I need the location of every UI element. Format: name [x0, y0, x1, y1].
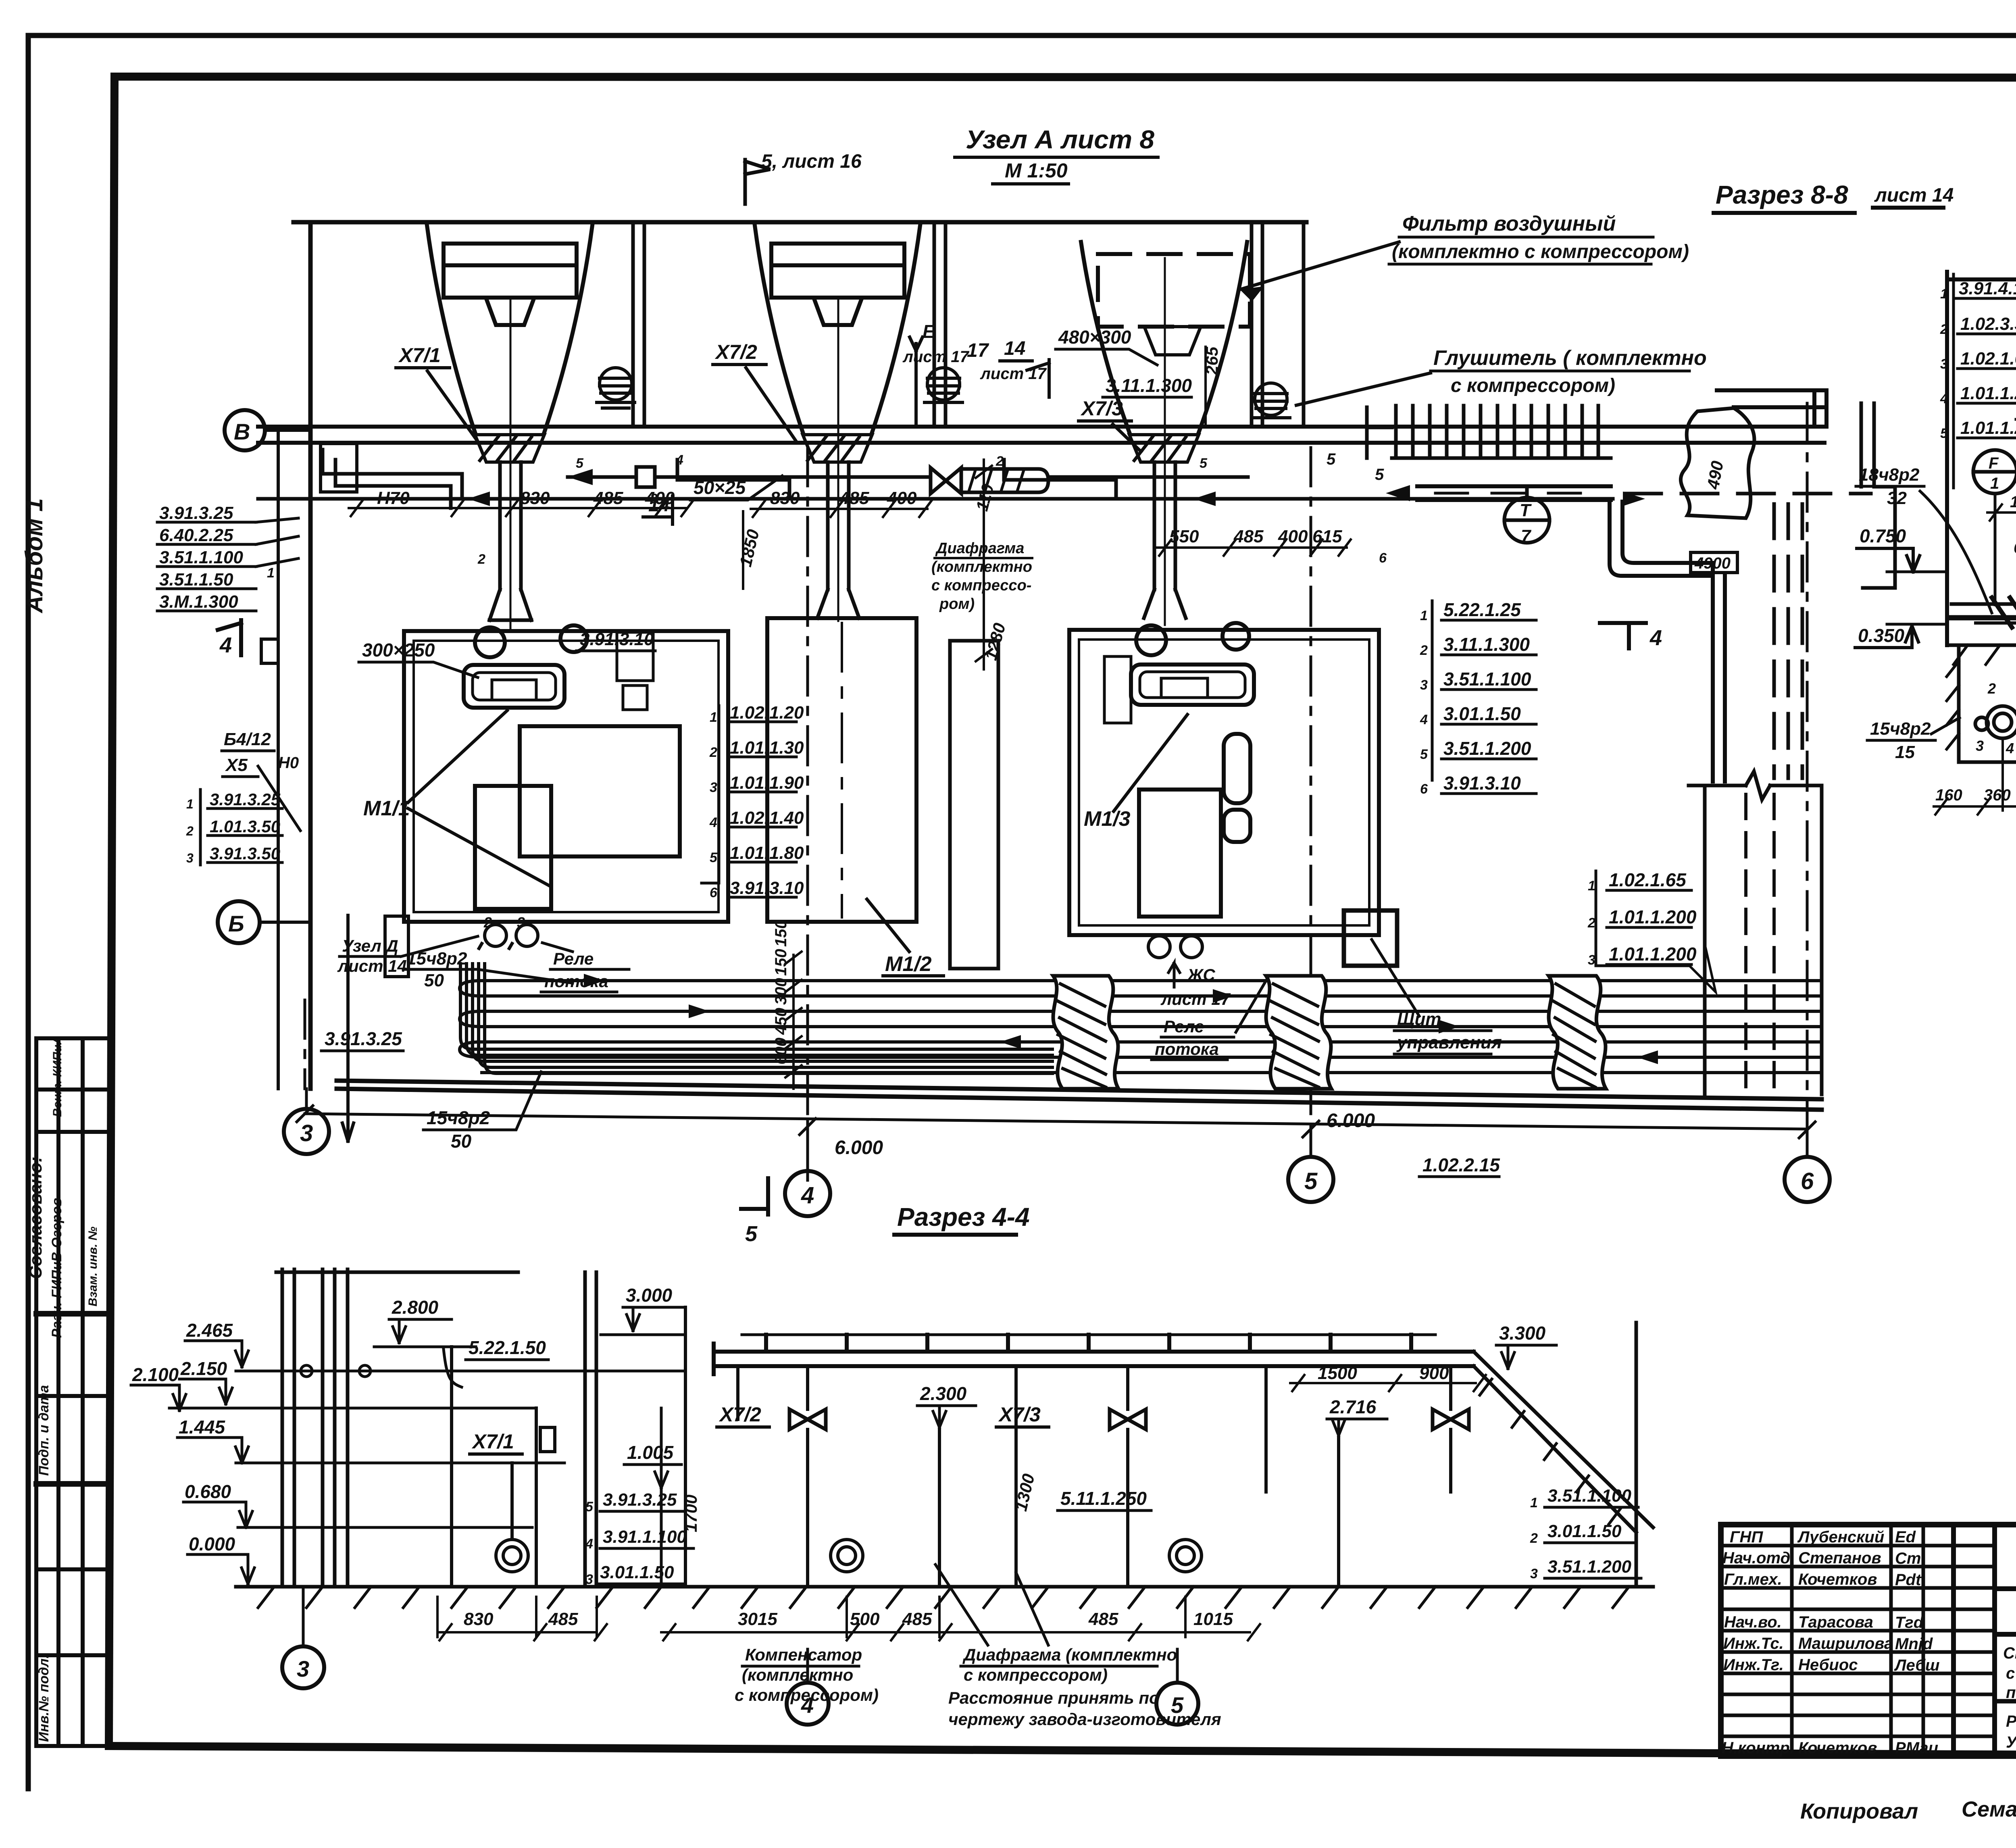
svg-text:4: 4: [675, 452, 683, 468]
Щит управления label: [1372, 940, 1502, 1054]
svg-text:Ст: Ст: [1895, 1550, 1921, 1567]
svg-text:3015: 3015: [738, 1609, 777, 1629]
compressor unit 1 air intake cap: [444, 244, 577, 325]
dim row under ground right: [661, 1597, 1260, 1640]
svg-text:5: 5: [1304, 1168, 1318, 1194]
Узел Д лист 14 label: [337, 936, 478, 975]
svg-text:Глушитель ( комплектно: Глушитель ( комплектно: [1433, 346, 1707, 370]
svg-text:5: 5: [1327, 450, 1336, 468]
svg-text:2: 2: [996, 454, 1004, 469]
svg-text:2.300: 2.300: [920, 1383, 967, 1404]
svg-text:6: 6: [1379, 550, 1387, 566]
elbow duct top right: [1610, 502, 1725, 781]
long pipe: [258, 492, 1871, 506]
svg-text:Х7/3: Х7/3: [998, 1403, 1041, 1426]
foundation block columns: [1053, 976, 1606, 1089]
svg-text:Е: Е: [923, 321, 935, 342]
svg-text:4: 4: [801, 1182, 814, 1208]
4900 box: [1691, 552, 1737, 573]
svg-text:лист 17: лист 17: [902, 348, 969, 366]
dim row + line: [1987, 504, 2016, 521]
svg-text:РМаи: РМаи: [1895, 1739, 1938, 1757]
svg-text:5: 5: [1375, 466, 1384, 483]
svg-text:830: 830: [464, 1609, 494, 1629]
svg-text:2.100: 2.100: [132, 1364, 179, 1385]
svg-text:1.01.1.90: 1.01.1.90: [730, 773, 804, 793]
flag 5 лист 16: [745, 160, 770, 204]
grid circles 3 4 5 6: [284, 1109, 1830, 1216]
svg-text:Узел А лист 8: Узел А лист 8: [966, 125, 1154, 154]
svg-text:830: 830: [520, 488, 550, 508]
svg-text:Т: Т: [1520, 500, 1532, 520]
flow meter circle: [496, 1463, 528, 1572]
svg-text:300: 300: [772, 978, 790, 1005]
svg-text:(комплектно: (комплектно: [931, 558, 1032, 575]
u3 downpipe: [1144, 258, 1186, 625]
svg-text:1700: 1700: [681, 1495, 700, 1532]
svg-text:485: 485: [1233, 527, 1264, 546]
svg-text:Небиос: Небиос: [1798, 1656, 1858, 1674]
18ч8р2 32 label top-left: [1859, 465, 1920, 508]
elevation 0.750: [1857, 525, 1947, 572]
right callouts lower: [1547, 1486, 1631, 1577]
svg-text:Диафрагма (комплектно: Диафрагма (комплектно: [962, 1645, 1177, 1664]
dim row under ground left: [437, 1597, 607, 1640]
svg-text:Б: Б: [228, 911, 244, 936]
svg-text:1.02.1.65: 1.02.1.65: [1609, 869, 1687, 890]
grid axes vertical: [305, 403, 1807, 1180]
svg-text:0.680: 0.680: [185, 1481, 231, 1502]
svg-text:2: 2: [1987, 680, 1996, 697]
svg-text:Нач.во.: Нач.во.: [1724, 1613, 1782, 1631]
svg-text:1280: 1280: [981, 621, 1009, 662]
svg-text:1: 1: [1420, 608, 1428, 623]
svg-text:3.91.4.150: 3.91.4.150: [1959, 279, 2016, 298]
section callout left (1..5): [1954, 274, 2016, 488]
ground line + hatch: [1947, 645, 2016, 665]
svg-text:Станция воздушно-компрессионна: Станция воздушно-компрессионная: [2003, 1644, 2016, 1662]
svg-text:2: 2: [1420, 643, 1428, 658]
stairs: [1367, 406, 1611, 458]
svg-text:3.91.3.25: 3.91.3.25: [210, 790, 281, 809]
svg-text:Разрез 8-8: Разрез 8-8: [1716, 180, 1848, 209]
svg-text:Инж.Тг.: Инж.Тг.: [1723, 1656, 1784, 1674]
left callout stack B: [200, 790, 282, 865]
svg-text:5: 5: [1940, 426, 1948, 441]
svg-text:1: 1: [1990, 475, 1999, 492]
svg-text:2.800: 2.800: [392, 1297, 439, 1318]
u3 silencer: [1252, 383, 1290, 418]
svg-text:900: 900: [1419, 1363, 1449, 1383]
u2 silencer: [925, 368, 962, 402]
M1/1 bottom valves: [479, 922, 538, 948]
wall top: [294, 220, 1306, 225]
svg-text:3.01.1.50: 3.01.1.50: [1547, 1521, 1622, 1541]
svg-text:М1/2: М1/2: [885, 952, 932, 976]
column between M1/2 M1/3: [950, 641, 998, 969]
svg-text:М 1:50: М 1:50: [1005, 159, 1068, 182]
svg-text:Диафрагма: Диафрагма: [935, 540, 1024, 557]
svg-text:680: 680: [2014, 539, 2016, 557]
Б4/12 Х5 labels: [222, 729, 300, 831]
svg-text:1: 1: [1940, 286, 1948, 302]
svg-text:18ч8р2: 18ч8р2: [1859, 465, 1920, 485]
svg-text:500: 500: [850, 1609, 880, 1629]
svg-text:3.51.1.100: 3.51.1.100: [159, 548, 243, 567]
svg-text:3: 3: [650, 491, 658, 506]
svg-text:чертежу завода-изготовителя: чертежу завода-изготовителя: [948, 1710, 1221, 1729]
svg-text:4: 4: [1649, 626, 1662, 650]
svg-text:490: 490: [1703, 459, 1727, 491]
svg-text:6: 6: [1420, 781, 1428, 797]
svg-text:830: 830: [770, 488, 800, 508]
svg-text:Б4/12: Б4/12: [224, 729, 271, 749]
svg-text:1.01.1.30: 1.01.1.30: [730, 738, 804, 758]
svg-text:5: 5: [576, 456, 584, 471]
svg-text:3.91.3.10: 3.91.3.10: [1443, 773, 1521, 794]
callout stack lower right (1..3): [1596, 871, 1716, 992]
band arrows: [584, 974, 1658, 1064]
svg-text:3.91.3.25: 3.91.3.25: [325, 1028, 402, 1049]
svg-text:1850: 1850: [736, 527, 763, 569]
callout stack upper right (1..6): [1432, 601, 1536, 794]
svg-text:Семайкина: Семайкина: [1962, 1797, 2016, 1821]
valve symbol: [540, 1427, 555, 1452]
svg-text:5: 5: [745, 1222, 758, 1246]
svg-text:1280: 1280: [2010, 493, 2016, 511]
svg-text:5: 5: [1200, 456, 1208, 471]
svg-text:3.91.1.100: 3.91.1.100: [603, 1527, 687, 1547]
bowtie valve on axis 4: [789, 1409, 826, 1429]
реле потока label u3: [1152, 981, 1266, 1060]
doc number cell: [1995, 1586, 2016, 1591]
M1/3 bottom valves: [1148, 936, 1202, 958]
vertical dim column: [785, 952, 802, 1089]
svg-text:4: 4: [1940, 391, 1948, 406]
svg-text:3: 3: [186, 851, 194, 865]
svg-text:3.11.1.300: 3.11.1.300: [1443, 634, 1530, 655]
u1 downpipe: [489, 300, 531, 629]
svg-text:6.40.2.25: 6.40.2.25: [159, 525, 233, 545]
svg-text:3: 3: [297, 1656, 309, 1681]
svg-text:2: 2: [1530, 1531, 1538, 1546]
svg-text:160: 160: [1935, 786, 1962, 804]
bowtie valve u2 top: [931, 468, 961, 494]
svg-text:6.000: 6.000: [1327, 1110, 1375, 1131]
section walls: [1947, 226, 2016, 719]
svg-text:5.11.1.250: 5.11.1.250: [1060, 1488, 1147, 1509]
svg-text:2.465: 2.465: [186, 1320, 233, 1341]
svg-text:3: 3: [1976, 738, 1984, 754]
svg-text:Кочетков: Кочетков: [1798, 1739, 1877, 1757]
foundation block hatch: [1057, 984, 1595, 1087]
15ч8р2 15 label: [1870, 719, 1931, 762]
wall left: [278, 222, 408, 1141]
control panel box: [1344, 910, 1397, 966]
svg-text:Н0: Н0: [278, 754, 299, 772]
svg-text:15ч8р2: 15ч8р2: [427, 1107, 490, 1128]
svg-text:1015: 1015: [1193, 1609, 1233, 1629]
svg-text:0.750: 0.750: [1860, 525, 1906, 546]
axis circles 4 5 lower: [787, 1649, 1198, 1725]
svg-text:1.01.1.200: 1.01.1.200: [1960, 418, 2016, 438]
svg-text:Гл.мех.: Гл.мех.: [1724, 1571, 1782, 1588]
left outside callout stack: [157, 518, 298, 611]
svg-text:3.91.3.25: 3.91.3.25: [159, 503, 233, 523]
svg-text:485: 485: [839, 488, 869, 508]
svg-text:400: 400: [887, 488, 917, 508]
svg-text:1.02.1.40: 1.02.1.40: [730, 808, 804, 828]
svg-text:3: 3: [710, 780, 717, 795]
svg-text:150: 150: [772, 949, 790, 976]
svg-text:5: 5: [710, 850, 718, 865]
grid axis circle Б: [218, 901, 310, 943]
svg-text:400: 400: [1278, 527, 1308, 546]
M1/3 label + leader: [1084, 715, 1187, 831]
signature rows: [1721, 1544, 1995, 1548]
svg-text:600: 600: [772, 1038, 790, 1065]
svg-text:Х7/1: Х7/1: [471, 1430, 514, 1453]
bowtie valve right: [1433, 1409, 1469, 1429]
1500 900 dims: [1290, 1375, 1486, 1391]
svg-text:Расстояние принять по: Расстояние принять по: [948, 1688, 1160, 1707]
svg-text:0.350: 0.350: [1858, 625, 1905, 646]
svg-text:1.02.2.15: 1.02.2.15: [1422, 1154, 1500, 1175]
axis circle 3 lower: [282, 1587, 324, 1688]
svg-text:5, лист 16: 5, лист 16: [761, 151, 862, 172]
svg-text:150: 150: [772, 920, 790, 947]
svg-text:Разрез 4-4: Разрез 4-4: [897, 1202, 1030, 1231]
main pipe bundle dense: [1951, 598, 2016, 627]
svg-text:1: 1: [1530, 1495, 1538, 1510]
flag 5 bottom: [741, 1178, 768, 1215]
svg-text:1.01.1.200: 1.01.1.200: [1609, 906, 1697, 927]
title: Узел А лист 8: [966, 125, 1154, 182]
svg-text:В: В: [234, 419, 250, 444]
svg-text:4: 4: [709, 815, 717, 830]
flag 14 left: [643, 494, 673, 524]
svg-text:М1/1: М1/1: [363, 797, 410, 820]
T/7 circle: [1504, 486, 1549, 543]
svg-text:3: 3: [1530, 1566, 1538, 1581]
ЖС лист 17 label: [1160, 963, 1231, 1008]
svg-text:Расположение трубопроводов.: Расположение трубопроводов.: [2006, 1713, 2016, 1730]
svg-text:Лебш: Лебш: [1894, 1656, 1940, 1674]
svg-text:1.01.1.200: 1.01.1.200: [1960, 383, 2016, 403]
stepped pipes u1: [323, 450, 462, 508]
svg-text:ГНП: ГНП: [1730, 1528, 1763, 1546]
svg-text:с компрессором): с компрессором): [964, 1665, 1108, 1684]
elevation 0.350: [1855, 624, 1947, 648]
u2 bell: [754, 223, 921, 435]
svg-text:6: 6: [1801, 1168, 1814, 1194]
left columns: [276, 1269, 596, 1587]
svg-text:Х7/1: Х7/1: [398, 344, 441, 367]
dimension row u3: [1157, 540, 1351, 556]
svg-text:5.22.1.50: 5.22.1.50: [469, 1337, 546, 1358]
svg-text:3.300: 3.300: [1499, 1323, 1546, 1344]
svg-text:Еd: Еd: [1895, 1528, 1916, 1546]
right duct shaft: [1689, 403, 1895, 1094]
svg-text:3.000: 3.000: [626, 1285, 673, 1306]
svg-text:1.005: 1.005: [627, 1442, 674, 1463]
svg-text:лист 14: лист 14: [1874, 185, 1954, 206]
svg-text:15ч8р2: 15ч8р2: [406, 949, 467, 969]
callout stack center (1..6): [702, 706, 796, 897]
svg-text:Н.контр.: Н.контр.: [1722, 1739, 1794, 1757]
bottom handwritten row: [1800, 1795, 2016, 1823]
17 14 лист 17 flags: [967, 338, 1049, 397]
svg-text:3: 3: [585, 1572, 593, 1587]
svg-text:2: 2: [1587, 915, 1595, 931]
svg-text:1.02.3.30: 1.02.3.30: [1960, 314, 2016, 334]
svg-text:Нач.отд: Нач.отд: [1722, 1549, 1790, 1567]
диафрагма label lower: [948, 1645, 1221, 1729]
svg-text:3.51.1.200: 3.51.1.200: [1443, 738, 1531, 759]
stepped pipes u3: [1004, 460, 1116, 499]
Х7/1 label: [396, 344, 478, 442]
svg-text:Лубенский: Лубенский: [1797, 1528, 1884, 1546]
valve line u1-u2: [568, 467, 1248, 487]
svg-text:615: 615: [1312, 527, 1342, 546]
svg-text:3.91.3.25: 3.91.3.25: [603, 1490, 677, 1510]
svg-text:50: 50: [451, 1131, 472, 1152]
left small box on wall: [261, 639, 278, 663]
svg-text:0.000: 0.000: [189, 1533, 235, 1554]
svg-text:5: 5: [1420, 747, 1428, 762]
left stamp table: [36, 1038, 110, 1746]
svg-text:Подп. и дата: Подп. и дата: [36, 1385, 52, 1476]
signature table verticals: [1790, 1525, 1794, 1756]
svg-text:3.51.1.50: 3.51.1.50: [159, 570, 233, 590]
svg-text:1.02.1.65: 1.02.1.65: [1960, 349, 2016, 369]
ground line + hatch: [236, 1587, 1653, 1608]
svg-text:32: 32: [1887, 488, 1907, 508]
svg-text:F: F: [1989, 454, 1999, 472]
wall bottom: [337, 1081, 1822, 1110]
svg-text:Х5: Х5: [225, 755, 248, 775]
instrument circles F1 P4 P5 P6: [1973, 391, 2016, 593]
u3 bell: [1081, 242, 1247, 435]
svg-text:Инж.Тс.: Инж.Тс.: [1723, 1635, 1784, 1652]
u2 downpipe: [817, 300, 859, 621]
compressor unit 3 filter cap (dashed): [1098, 254, 1250, 327]
svg-text:6: 6: [710, 885, 718, 900]
svg-text:Тгd: Тгd: [1895, 1614, 1924, 1631]
svg-text:4: 4: [1420, 712, 1428, 727]
svg-text:2: 2: [186, 824, 194, 838]
svg-text:550: 550: [1169, 527, 1199, 546]
screwed cylinder: [961, 469, 1048, 492]
реле потока label u1: [541, 943, 629, 992]
svg-text:3.91.3.10: 3.91.3.10: [580, 629, 654, 649]
stepped pipes u2: [677, 460, 789, 499]
svg-text:Н70: Н70: [377, 488, 410, 508]
svg-text:360: 360: [1984, 786, 2011, 804]
svg-text:3: 3: [1420, 677, 1428, 693]
bay partition walls: [633, 222, 1304, 427]
vertical risers mid: [444, 1307, 685, 1587]
svg-text:Альбом 1: Альбом 1: [21, 498, 48, 614]
svg-text:485: 485: [548, 1609, 578, 1629]
компенсатор label: [735, 1645, 879, 1704]
svg-text:3: 3: [300, 1120, 313, 1146]
svg-text:3.91.3.10: 3.91.3.10: [730, 878, 804, 898]
svg-text:485: 485: [1088, 1609, 1118, 1629]
svg-text:с компрессором): с компрессором): [1451, 375, 1615, 396]
compressor M1/3 block: [1069, 623, 1379, 935]
compressor M1/2 outline: [767, 618, 916, 922]
svg-text:3.91.3.50: 3.91.3.50: [210, 844, 280, 863]
svg-text:Машрилова: Машрилова: [1798, 1635, 1893, 1652]
elevation marks left: [131, 1341, 254, 1584]
svg-text:6.000: 6.000: [835, 1137, 883, 1158]
u1 funnel hatch: [475, 435, 544, 462]
svg-text:лист 14: лист 14: [337, 956, 407, 975]
svg-text:2: 2: [1940, 322, 1948, 337]
svg-text:3.51.1.100: 3.51.1.100: [1547, 1486, 1631, 1506]
bottom channel band: [460, 981, 1818, 1073]
elevation level lines: [169, 1365, 685, 1527]
svg-text:с установкой осушки воздуха: с установкой осушки воздуха: [2006, 1665, 2016, 1682]
глушитель label: [1296, 346, 1707, 405]
title block main: [1721, 1525, 2016, 1756]
svg-text:17: 17: [967, 340, 989, 361]
Х7/2 label: [713, 341, 796, 442]
elbow pipe bundle bottom left: [460, 964, 1052, 1073]
Х7/3 label: [1079, 397, 1141, 452]
svg-text:Х7/2: Х7/2: [714, 341, 757, 363]
svg-text:1.445: 1.445: [179, 1417, 226, 1438]
M1/1 label + leaders: [363, 710, 550, 886]
svg-text:3: 3: [517, 914, 525, 931]
svg-text:2.716: 2.716: [1329, 1396, 1377, 1417]
svg-text:3.01.1.50: 3.01.1.50: [600, 1563, 674, 1582]
building NE corner: [1717, 390, 1826, 427]
big pipe top: [714, 1335, 1474, 1374]
15ч8р2 50 bottom label: [423, 1072, 541, 1152]
svg-text:3.11.1.300: 3.11.1.300: [1106, 375, 1192, 396]
left margin rotated text Альбом 1: [21, 498, 65, 1338]
svg-text:Х7/2: Х7/2: [719, 1403, 761, 1426]
svg-text:1: 1: [267, 565, 275, 581]
u1 bell: [427, 223, 593, 435]
svg-text:15: 15: [1895, 742, 1915, 762]
svg-text:1.01.3.50: 1.01.3.50: [210, 817, 280, 836]
dimension line bottom of plan: [297, 1089, 1815, 1171]
2.800 label: [374, 1297, 476, 1347]
svg-text:485: 485: [593, 488, 623, 508]
svg-text:2: 2: [483, 914, 492, 931]
svg-text:2.150: 2.150: [180, 1358, 227, 1379]
bottom dim row: [1934, 736, 2016, 815]
scattered position numerals: [267, 452, 1387, 581]
svg-text:3.51.1.100: 3.51.1.100: [1443, 669, 1531, 690]
svg-text:50×25: 50×25: [694, 477, 746, 498]
svg-text:1.02.1.20: 1.02.1.20: [730, 703, 804, 723]
compressor unit 2 cap: [771, 244, 904, 325]
фильтр воздушный label: [1240, 212, 1689, 302]
compressor M1/1 block: [404, 625, 728, 922]
risers mid right: [661, 1366, 1451, 1587]
svg-text:Фильтр воздушный: Фильтр воздушный: [1402, 212, 1616, 235]
svg-text:3.М.1.300: 3.М.1.300: [159, 592, 238, 612]
svg-text:4: 4: [219, 633, 232, 657]
svg-text:Копировал: Копировал: [1800, 1799, 1918, 1823]
svg-text:480×300: 480×300: [1058, 327, 1131, 348]
cloud break right: [1681, 408, 1754, 518]
thick pipe under stairs: [1386, 485, 1611, 501]
